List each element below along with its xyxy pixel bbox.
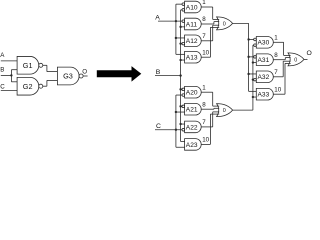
node B tap A12 <box>179 42 181 44</box>
node A junction <box>175 20 177 22</box>
input label C (right circuit) <box>156 123 161 130</box>
and gate A10 pin 1 <box>182 0 206 13</box>
wire U1 output distribution <box>233 23 249 91</box>
node U2 tap A32 <box>252 78 254 80</box>
svg-text:B: B <box>0 67 4 74</box>
svg-text:A31: A31 <box>258 57 270 64</box>
wire A23 output to U2 <box>201 114 219 144</box>
svg-text:1: 1 <box>202 84 206 91</box>
svg-text:B: B <box>156 69 161 76</box>
svg-text:7: 7 <box>274 69 278 76</box>
input label A (right circuit) <box>155 14 160 21</box>
wire U2 to A32 bottom input <box>252 79 255 81</box>
bubble G1 output <box>39 63 43 67</box>
wire A to A10 top input <box>176 3 182 5</box>
svg-text:A30: A30 <box>258 40 270 47</box>
node U2 tap A31 <box>252 61 254 63</box>
node U2 tap A33 <box>252 96 254 98</box>
node B junction <box>10 74 12 76</box>
wire U3 output <box>304 58 308 60</box>
svg-text:A22: A22 <box>186 124 198 131</box>
svg-text:7: 7 <box>202 33 206 40</box>
and gate A23 pin 10 <box>185 137 210 151</box>
wire U1 to A33 top input <box>249 90 257 92</box>
node B tap A22 <box>179 123 181 125</box>
svg-text:0: 0 <box>223 21 226 27</box>
node C junction <box>175 129 177 131</box>
wire A33 output to U3 <box>273 63 290 94</box>
svg-text:A32: A32 <box>258 74 270 81</box>
wire A10 output to U1 <box>201 7 219 19</box>
arrow <box>97 66 142 82</box>
wire A to A11 top input <box>158 20 182 22</box>
node A tap A12 <box>175 37 177 39</box>
wire A21 output to U2 <box>201 107 219 110</box>
wire C to G2 bottom input <box>1 90 17 92</box>
and gate A22 pin 7 <box>182 119 206 133</box>
wire B to G2 top input <box>11 81 17 83</box>
output label O (right circuit) <box>307 50 312 57</box>
node B tap A11 <box>179 26 181 28</box>
wire B to A20 top input <box>181 88 182 90</box>
node B tap A20 <box>179 88 181 90</box>
wire U2 output distribution <box>233 45 253 110</box>
and gate A11 pin 8 <box>182 16 206 30</box>
svg-text:A12: A12 <box>186 38 198 45</box>
svg-text:A: A <box>0 52 5 59</box>
wire A distribution vertical <box>175 4 177 54</box>
svg-text:7: 7 <box>202 119 206 126</box>
nand gate G1 <box>17 56 39 74</box>
wire B vertical branch <box>10 70 12 82</box>
svg-text:8: 8 <box>274 52 278 59</box>
wire B to A13 bottom input <box>181 59 185 61</box>
wire U2 to A31 bottom input <box>253 62 256 64</box>
wire C to A22 bottom input <box>155 129 182 131</box>
input label B (left circuit) <box>0 67 4 74</box>
wire A13 output to U1 <box>201 27 219 57</box>
or gate U3 (final sum) <box>288 53 304 66</box>
and gate A32 pin 7 <box>254 69 279 83</box>
svg-text:8: 8 <box>202 101 206 108</box>
input label C (left circuit) <box>0 83 5 90</box>
svg-text:O: O <box>82 69 87 76</box>
svg-text:G2: G2 <box>23 82 33 91</box>
node B tap A13 <box>179 59 181 61</box>
and gate A20 pin 1 <box>182 84 206 98</box>
svg-text:1: 1 <box>202 0 206 6</box>
wire B to A21 top input <box>181 105 182 107</box>
nand gate G2 <box>17 77 39 95</box>
wire C distribution vertical <box>175 95 177 147</box>
wire B to A22 top input <box>181 123 185 125</box>
wire G2 output to G3 <box>43 80 58 86</box>
wire B horizontal <box>1 74 12 76</box>
node U1 tap A31 <box>247 56 249 58</box>
bubble G3 output <box>79 74 83 78</box>
wire A30 output to U3 <box>273 42 290 55</box>
wire B to A12 bottom input <box>181 43 182 45</box>
svg-text:A10: A10 <box>186 4 198 11</box>
wire U1 to A32 top input <box>249 73 257 75</box>
wire A to G1 top input <box>1 60 17 62</box>
wire A to A12 top input <box>176 37 185 39</box>
wire U2 to A30 bottom input <box>252 44 255 46</box>
wire A20 output to U2 <box>201 92 219 106</box>
wire C to A23 bottom input <box>176 146 185 148</box>
svg-text:10: 10 <box>202 49 209 56</box>
wire B to A23 top input <box>181 141 185 143</box>
svg-text:10: 10 <box>202 137 209 144</box>
svg-text:G3: G3 <box>63 72 73 81</box>
and gate A30 pin 1 <box>254 34 279 48</box>
wire A11 output to U1 <box>201 22 219 24</box>
nand gate G3 <box>57 67 79 85</box>
node B junction <box>179 74 181 76</box>
and gate A13 pin 10 <box>185 49 210 63</box>
svg-text:A20: A20 <box>186 90 198 97</box>
and gate A33 pin 10 <box>256 86 281 100</box>
svg-text:A23: A23 <box>186 142 198 149</box>
svg-text:A33: A33 <box>258 92 270 99</box>
svg-text:A: A <box>155 14 160 21</box>
and gate A12 pin 7 <box>182 33 206 47</box>
wire U1 to A31 top input <box>249 56 254 58</box>
wire B horizontal <box>155 75 181 77</box>
svg-text:C: C <box>0 83 5 90</box>
svg-text:A21: A21 <box>186 107 198 114</box>
wire A12 output to U1 <box>201 25 219 41</box>
wire A31 output to U3 <box>273 58 290 60</box>
wire G1 output to G3 <box>43 65 58 71</box>
svg-text:10: 10 <box>274 86 281 93</box>
and gate A21 pin 8 <box>182 101 206 115</box>
wire A32 output to U3 <box>273 61 290 77</box>
svg-text:O: O <box>307 50 312 57</box>
input label A (left circuit) <box>0 52 5 59</box>
svg-text:0: 0 <box>294 57 297 63</box>
svg-text:G1: G1 <box>23 61 33 70</box>
node U1 tap A30 <box>247 38 249 40</box>
input label B (right circuit) <box>156 69 161 76</box>
wire B distribution vertical <box>180 10 182 142</box>
wire U2 to A33 bottom input <box>253 96 256 98</box>
node C tap A21 <box>175 111 177 113</box>
wire B to A10 bottom input <box>181 9 182 11</box>
svg-text:1: 1 <box>274 34 278 41</box>
svg-text:8: 8 <box>202 16 206 23</box>
wire C to A20 bottom input <box>176 94 182 96</box>
node U1 tap A32 <box>247 73 249 75</box>
wire G3 output <box>83 75 88 77</box>
and gate A31 pin 8 <box>254 52 279 66</box>
or gate U2 (sums A20-A23) <box>217 104 233 117</box>
bubble G2 output <box>39 84 43 88</box>
svg-text:0: 0 <box>223 108 226 114</box>
wire A to A13 top input <box>176 53 185 55</box>
svg-text:C: C <box>156 123 161 130</box>
svg-text:A11: A11 <box>186 21 198 28</box>
wire B to G1 bottom input <box>11 69 17 71</box>
output label O (left circuit) <box>82 69 87 76</box>
node B tap A21 <box>179 105 181 107</box>
wire U1 to A30 top input <box>249 38 254 40</box>
wire B to A11 bottom input <box>181 26 185 28</box>
wire A22 output to U2 <box>201 112 219 127</box>
wire C to A21 bottom input <box>176 111 185 113</box>
svg-text:A13: A13 <box>186 55 198 62</box>
or gate U1 (sums A10-A13) <box>217 17 233 30</box>
